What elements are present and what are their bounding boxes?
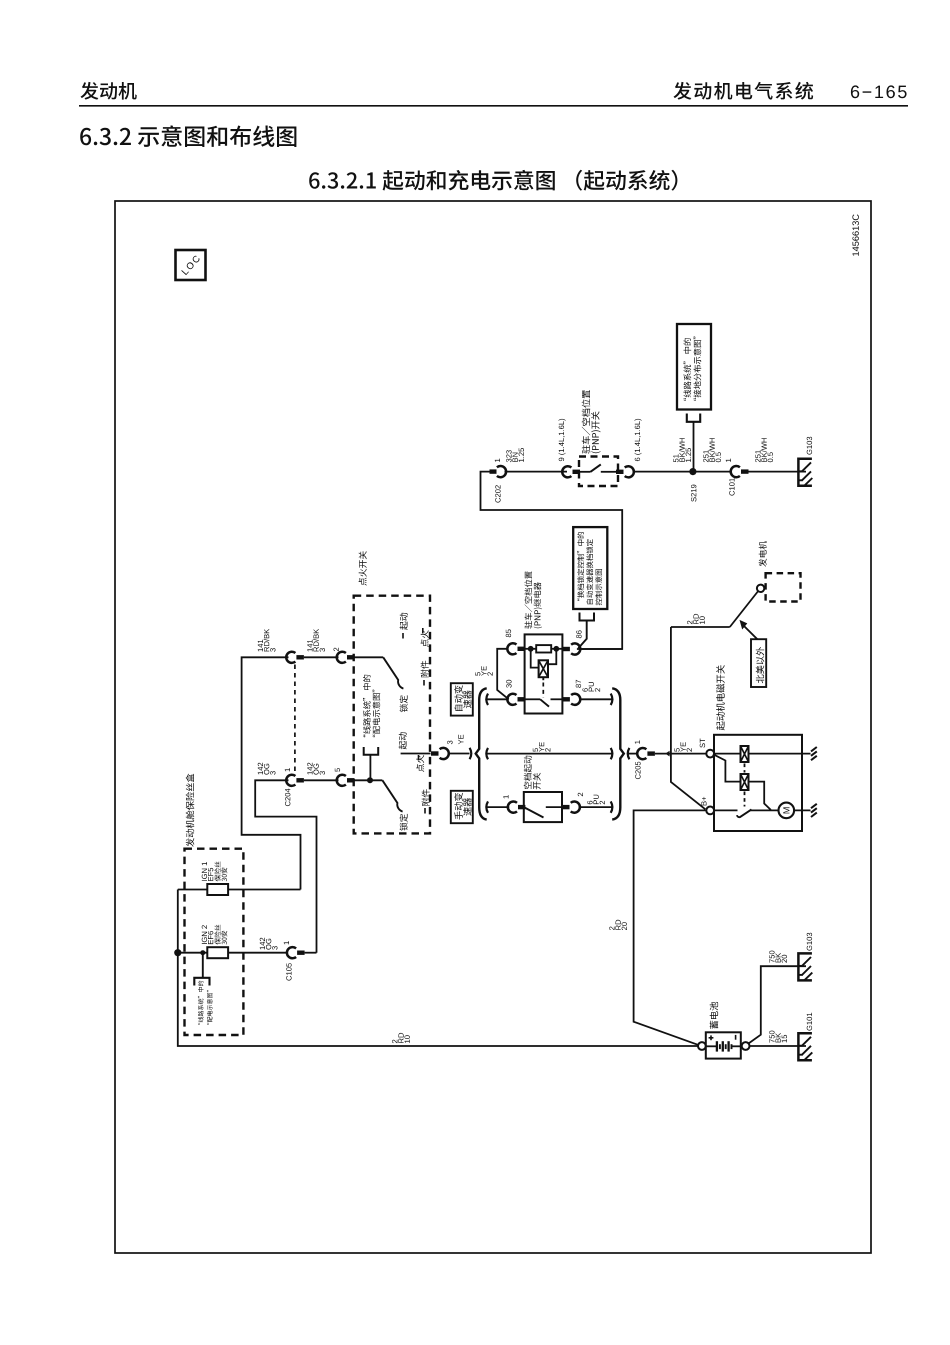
B+ terminal [706, 807, 714, 815]
connector C204 upper half [286, 652, 295, 663]
label 141 RD/BK 3 (first) [258, 640, 263, 652]
wire: C202 to relay-86 vertical/horizontal feed [481, 472, 623, 649]
middle branch wire 5 YE 2 [486, 748, 488, 759]
motor M [751, 809, 779, 811]
wire 87 to right brace [579, 698, 612, 700]
neutral start switch label [524, 756, 532, 789]
ignition START output wire [401, 753, 431, 755]
label 251 BK/WH 0.5 (left) [703, 450, 708, 462]
right brace [612, 688, 624, 819]
automatic transmission tag box [451, 683, 473, 715]
relay pin 87 connector [562, 697, 570, 701]
battery polarity marks [709, 1037, 714, 1039]
connector C204 lower half [286, 775, 295, 786]
neutral start switch box [524, 792, 562, 822]
generator vertical + B+ drop [671, 627, 705, 809]
wire pin2 to right brace [579, 806, 612, 808]
pin 1 label [285, 768, 290, 771]
ignition switch edge connector (pin5) [337, 775, 346, 786]
ignition switch dashed box [354, 596, 430, 834]
wire S219 to C101 [693, 471, 732, 473]
left brace [476, 688, 487, 819]
pull-in winding branch [713, 754, 741, 781]
wire C105 to 142 riser [305, 952, 317, 954]
left bus vertical [178, 890, 699, 1047]
header right: 发动机电气系统 [674, 82, 814, 100]
LOC box [176, 250, 206, 280]
label 2 RD 10 (generator) [687, 621, 692, 624]
hold-in winding (top line) [714, 753, 741, 755]
shift-lock reference box [573, 527, 607, 609]
relay label [525, 571, 533, 628]
relay coil line + resistor [525, 648, 536, 650]
distribution bracket under IGN2 [200, 950, 205, 955]
page number 6-165 [851, 85, 907, 98]
label 2 RD 20 [609, 927, 614, 930]
IGN 2 fuse labels [202, 925, 207, 944]
neutral switch pin 2 connector [562, 805, 570, 809]
outside-north-america tag box [751, 639, 766, 687]
85-30 jumper [497, 649, 509, 700]
label 6 PU 2 (manual) [587, 801, 592, 805]
IGN 1 fuse labels [202, 862, 207, 881]
top branch wire (relay path) [486, 694, 488, 705]
wire B+ down to battery [634, 810, 707, 1045]
wire 86 (to C202 riser) [579, 648, 622, 650]
label 142 OG 3 (second) [307, 763, 312, 775]
engine compartment fuse box dashed outline [185, 849, 244, 1035]
fuse box label 发动机舱保险丝盒 [186, 774, 195, 847]
ground G101 [798, 1033, 812, 1060]
IGN1 fuse line [178, 889, 208, 891]
coil winding [531, 649, 539, 668]
label 323 BN 1.25 [506, 450, 511, 462]
label 3 YE [447, 741, 452, 745]
ignition switch edge connector (pin2) [337, 652, 346, 663]
wire battery to G101 [750, 1045, 807, 1047]
battery + terminal [698, 1042, 706, 1050]
subtitle 6.3.2.1 [309, 170, 677, 191]
wire battery to G103 (lower) [749, 966, 807, 1043]
ignition switch label 点火开关 [359, 551, 367, 585]
ignition bottom deck wiper [354, 779, 382, 781]
label 142 OG 3 (first) [258, 763, 263, 775]
wire C101 to G103 [749, 471, 807, 473]
neutral switch blade [524, 807, 544, 817]
figure number 1456613C [852, 214, 859, 255]
PNP switch dashed box [579, 457, 618, 487]
distribution reference bracket (ignition) [364, 747, 379, 755]
bracket from reference box to S219 [687, 414, 700, 422]
manual transmission tag box [451, 791, 473, 823]
generator label 发电机 [759, 541, 767, 567]
header rule [79, 105, 908, 107]
generator feed wire (2 RD 10) [671, 626, 730, 628]
label 750 BK 15 [769, 1031, 774, 1043]
label 9 (1.4L,1.6L) [559, 419, 566, 461]
IGN2 fuse line [174, 949, 181, 956]
battery box [706, 1032, 741, 1058]
top deck position labels [400, 613, 408, 630]
schematic frame [115, 201, 871, 1253]
wire C205 to starter ST [655, 753, 706, 755]
arrow to generator wire [744, 626, 758, 640]
relay pin 85 connector [506, 629, 511, 637]
label 51 BK/WH 1.25 [673, 454, 678, 462]
bottom deck position labels [399, 732, 407, 749]
PNP switch right connector [616, 470, 624, 474]
wire C204 to ignition switch (141) [304, 656, 339, 658]
neutral start switch pin 1 connector [503, 795, 508, 798]
bottom branch wire (manual path) [486, 801, 488, 812]
ground G103 (lower) [798, 953, 812, 980]
PNP switch left connector [562, 466, 571, 477]
starter solenoid box [714, 735, 802, 831]
solenoid dashed link [744, 764, 746, 773]
splice S219 [689, 468, 696, 475]
section title 6.3.2 [80, 125, 296, 147]
ground G103 (top) [798, 459, 812, 486]
wire 141 RD/BK row with left drop to fuse IGN1 [242, 657, 301, 889]
label 251 BK/WH 0.5 (right) [755, 450, 760, 462]
label 6 PU 2 [582, 688, 587, 692]
relay pin 86 connector [562, 647, 570, 651]
label 5 YE 2 / ST [674, 748, 679, 752]
label 5 YE 2 (relay coil feed) [475, 672, 480, 676]
C204 dashed mate line [294, 665, 296, 774]
starter solenoid label [716, 665, 725, 730]
bracket from shift-lock box to 86 wire [580, 613, 595, 621]
wire C202 to PNP switch [505, 471, 568, 473]
relay contact [525, 698, 540, 700]
battery - terminal [742, 1042, 750, 1050]
battery label 蓄电池 [710, 1002, 718, 1029]
label 6 (1.4L,1.6L) [635, 419, 642, 461]
connector C101 [726, 459, 731, 462]
pin 5 label [335, 768, 340, 772]
label 142 OG 3 (C105) [260, 938, 265, 950]
coil-contact dashed link [542, 683, 544, 698]
wire to left brace [448, 753, 470, 755]
connector C105 [287, 947, 296, 958]
label 750 BK 20 [769, 951, 774, 963]
C204 label [285, 789, 290, 807]
PNP relay box [525, 634, 563, 713]
output connector [431, 751, 439, 755]
generator terminal [757, 585, 764, 592]
starter contact blade [714, 809, 738, 811]
ground distribution reference box [677, 324, 711, 410]
ignition top deck wiper [354, 656, 383, 658]
pin 2 label [334, 648, 339, 651]
wire 142 OG row looping to C105 riser [255, 780, 316, 952]
PNP switch label [582, 390, 591, 454]
generator dashed box [766, 573, 801, 601]
wire PNP to S219 [633, 471, 693, 473]
battery plates [706, 1045, 717, 1047]
connector C205 [628, 748, 630, 759]
wire C204 to ignition switch (142) [304, 779, 339, 781]
ST terminal [706, 750, 714, 758]
connector C202 [490, 469, 497, 473]
junction to distribution bracket [367, 777, 373, 783]
relay pin 30 connector [506, 680, 511, 688]
junction wedge at generator crossing [665, 751, 669, 757]
label 2 RD 10 (bus) [392, 1040, 397, 1043]
PNP switch blade [580, 471, 591, 473]
label 141 RD/BK 3 (second) [307, 640, 312, 652]
header left: 发动机 [81, 82, 137, 100]
